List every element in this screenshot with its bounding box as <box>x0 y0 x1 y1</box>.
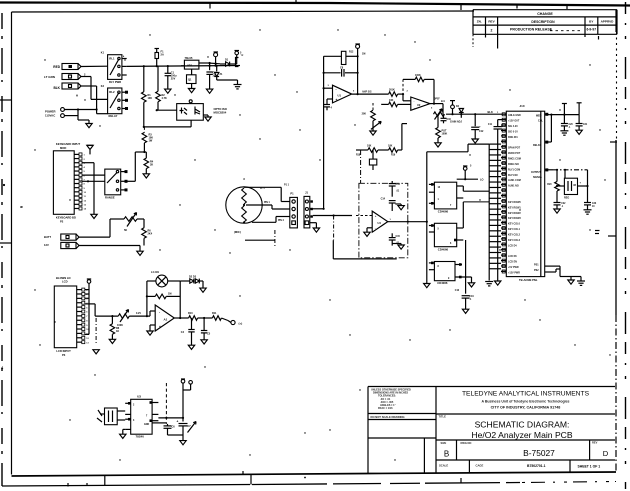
wire junction after R10 <box>198 317 213 319</box>
svg-text:MED: MED <box>536 115 542 118</box>
label R19b <box>391 155 396 157</box>
svg-text:U3: U3 <box>137 395 141 399</box>
resistor R2 4.7K <box>156 66 167 102</box>
resistor R17 pot 100K <box>436 128 448 143</box>
J1 ground <box>310 223 320 233</box>
shield dash line lcd <box>93 318 99 354</box>
svg-text:OUTPUT: OUTPUT <box>531 171 541 174</box>
svg-text:115VAC: 115VAC <box>45 114 55 118</box>
wire J10 second exit <box>545 115 552 144</box>
svg-text:CD4066: CD4066 <box>437 281 448 285</box>
left edge zone mark 4 <box>20 206 22 208</box>
feedback resistor R9 <box>155 293 171 299</box>
label C15 val <box>396 243 400 245</box>
IC U5 CD4066 <box>429 182 463 209</box>
wire bend to ladder <box>468 144 489 152</box>
IC U7 CD4066 <box>429 262 472 281</box>
svg-text:78S40: 78S40 <box>136 435 145 439</box>
revision entry rev number <box>491 28 493 32</box>
relay RL2 label <box>109 114 118 118</box>
connector J1 <box>304 191 310 228</box>
label 1M feedback <box>362 53 365 56</box>
earth ground right <box>234 80 242 89</box>
svg-text:PS1: PS1 <box>534 264 539 267</box>
op-amp U1 plus wire <box>327 99 333 105</box>
svg-text:DWG NO: DWG NO <box>461 441 472 445</box>
capacitor C6 <box>164 424 176 433</box>
sensor top wire <box>244 184 290 202</box>
svg-text:RLY1 COM: RLY1 COM <box>508 168 520 171</box>
transistor Q1 <box>187 69 197 88</box>
terminal T6 <box>577 103 582 115</box>
svg-text:10K: 10K <box>367 144 372 147</box>
capacitor C22 <box>554 203 567 210</box>
label K1 <box>101 52 105 55</box>
svg-text:U2: U2 <box>417 103 421 107</box>
relay RL1 <box>108 55 127 80</box>
power terminal circle 1 <box>61 108 97 112</box>
op-amp U2 <box>411 97 430 110</box>
svg-text:4.7K: 4.7K <box>162 97 167 100</box>
svg-text:J10: J10 <box>519 104 524 108</box>
wire U8 left <box>556 185 565 187</box>
svg-text:BLOWN LN: BLOWN LN <box>56 276 71 280</box>
svg-text:REV: REV <box>592 441 598 445</box>
resistor R14 feedback <box>402 74 434 104</box>
chassis line <box>245 216 334 248</box>
wire U6 right to ladder <box>463 202 489 228</box>
capacitor C21 <box>576 115 588 131</box>
capacitor C12 polarized <box>471 114 484 139</box>
svg-text:PRODUCTION RELEASE: PRODUCTION RELEASE <box>510 28 553 32</box>
voltage regulator VR1 78L05 <box>181 56 208 69</box>
trimmer arrow pot <box>371 122 381 130</box>
right outer scan edge (broken) <box>625 2 627 489</box>
svg-text:ALM1 COM: ALM1 COM <box>508 179 521 182</box>
main bus wire top <box>127 65 240 68</box>
title block outline <box>368 387 615 474</box>
switch S1 label <box>105 196 115 200</box>
svg-text:5K: 5K <box>124 229 127 232</box>
revision table column lines <box>486 17 598 49</box>
terminal plus output <box>231 320 242 325</box>
IC U3 78S40 <box>125 399 166 434</box>
rev label <box>592 441 598 445</box>
svg-text:RELAY: RELAY <box>109 114 118 118</box>
svg-text:BLK: BLK <box>53 86 60 90</box>
svg-text:LCD D4: LCD D4 <box>508 244 517 247</box>
label pin2 U2 <box>407 91 409 93</box>
svg-text:TITLE: TITLE <box>439 415 447 419</box>
svg-text:ZN.: ZN. <box>477 20 482 24</box>
capacitor C15 <box>389 233 401 245</box>
shield box dash-dot <box>359 183 408 257</box>
dwg no label <box>461 441 472 445</box>
svg-text:B: B <box>444 450 449 459</box>
svg-text:C15: C15 <box>396 235 401 238</box>
svg-text:TELEDYNE ANALYTICAL INSTRUMENT: TELEDYNE ANALYTICAL INSTRUMENTS <box>462 390 590 397</box>
svg-text:BATT: BATT <box>44 235 51 239</box>
IC U7 label <box>437 281 448 285</box>
svg-text:P2: P2 <box>60 219 64 223</box>
trimpot R16 <box>434 109 445 128</box>
terminal plug RED label <box>53 65 60 69</box>
ground below R4 <box>143 174 149 178</box>
op-amp U1 <box>333 85 352 103</box>
wire U5 right to ladder <box>463 186 489 191</box>
svg-text:C14: C14 <box>381 198 386 201</box>
capacitor C7 polarized <box>177 420 197 441</box>
op-amp U1 output <box>352 90 389 95</box>
svg-text:U1: U1 <box>338 94 342 98</box>
svg-text:DESCRIPTION: DESCRIPTION <box>531 20 555 24</box>
ground below power <box>86 120 92 128</box>
svg-text:RNG1 NO: RNG1 NO <box>508 163 519 166</box>
left edge zone mark 3 <box>1 365 4 370</box>
revision header REV <box>488 20 495 24</box>
svg-text:RNG ID1: RNG ID1 <box>508 136 518 139</box>
op-amp U2 output <box>430 101 475 114</box>
op-amp U1 minus wire <box>323 87 333 89</box>
svg-text:25V: 25V <box>171 78 176 81</box>
capacitor C10 <box>441 114 452 123</box>
svg-text:DO NOT SCALE DRAWING: DO NOT SCALE DRAWING <box>371 415 405 419</box>
svg-text:LCD D6: LCD D6 <box>508 255 517 258</box>
svg-text:R19: R19 <box>391 155 396 157</box>
zener D4 <box>456 105 464 118</box>
sheet label <box>578 464 601 468</box>
svg-text:CAL: CAL <box>538 120 543 123</box>
revision entry approval tick <box>598 36 600 40</box>
resistor R8 1K <box>110 316 120 339</box>
resistor R6 2K4 <box>137 219 153 246</box>
meter lamp M1 <box>156 275 168 287</box>
lcd bus rungs <box>85 290 89 335</box>
op-amp U4 minus ground <box>364 228 372 237</box>
resistor R3 10K 1W <box>142 127 153 152</box>
label pin6 U2 <box>431 108 433 110</box>
svg-text:R18: R18 <box>356 155 361 157</box>
svg-text:PIN 4: PIN 4 <box>278 219 284 222</box>
svg-text:SCHEMATIC DIAGRAM:: SCHEMATIC DIAGRAM: <box>475 419 570 429</box>
wire J1 to riser <box>310 208 325 210</box>
sensor element <box>242 188 247 224</box>
svg-text:KEY ROW2: KEY ROW2 <box>508 212 521 215</box>
svg-text:R12: R12 <box>349 51 354 54</box>
svg-text:SPAN POT: SPAN POT <box>508 147 521 150</box>
svg-text:12V: 12V <box>44 243 49 247</box>
drawing title line 1 <box>475 419 570 429</box>
op-amp A1 <box>155 305 174 331</box>
cage label <box>476 463 484 467</box>
svg-text:P1: P1 <box>290 192 294 196</box>
left outer scan edge (broken) <box>1 13 3 486</box>
sensor input riser <box>323 56 325 209</box>
svg-text:R11: R11 <box>212 312 217 315</box>
connector P2 pin texts <box>84 155 87 211</box>
bottom zone tick b <box>87 476 105 487</box>
svg-text:OP07: OP07 <box>434 97 441 100</box>
wire to op-amp A1 <box>129 311 155 317</box>
label pin6 U1 <box>353 91 355 93</box>
svg-text:LC-M1: LC-M1 <box>151 270 159 274</box>
ground below riser <box>424 284 430 288</box>
dash-dot wire to U8 <box>553 169 588 171</box>
ground below C2 <box>206 89 212 93</box>
ground bus2 <box>495 281 501 285</box>
zener pair D2 D3 <box>180 276 206 293</box>
size label <box>441 441 447 445</box>
label TP2b <box>241 55 244 57</box>
svg-text:FL 1: FL 1 <box>260 188 265 190</box>
J1 pin squares right <box>311 200 313 217</box>
svg-text:2: 2 <box>491 28 493 32</box>
connector J10 right texts <box>531 115 543 273</box>
earth ground below C23 <box>584 210 592 214</box>
bottom zone tick e <box>460 478 462 484</box>
resistor R20 <box>547 170 559 203</box>
svg-text:LCD: LCD <box>62 280 68 284</box>
svg-text:LCD EN: LCD EN <box>508 261 517 264</box>
label pin3 U1 <box>328 85 330 87</box>
svg-text:+: + <box>375 214 377 218</box>
svg-text:MOD: MOD <box>60 146 66 150</box>
svg-text:1K: 1K <box>116 330 119 333</box>
svg-text:C11: C11 <box>488 124 493 126</box>
bottom zone tick d <box>243 471 306 478</box>
inner border bottom <box>12 472 617 476</box>
connector J10 bottom label <box>519 278 538 282</box>
revision header APPROVED <box>601 20 615 24</box>
label C13 val <box>396 191 400 193</box>
bottom row cell lines <box>469 460 570 473</box>
svg-text:301K: 301K <box>389 88 395 91</box>
ground below C16 <box>462 309 468 313</box>
svg-text:ANLG GND: ANLG GND <box>508 114 521 117</box>
wire S1 up to R3 <box>128 151 147 181</box>
wire to output terminal <box>221 318 231 323</box>
IC U8 label <box>564 181 582 200</box>
wire X1 to U3 <box>117 411 125 420</box>
svg-text:KEY ROW0: KEY ROW0 <box>508 201 521 204</box>
terminal plug E4 <box>61 234 110 240</box>
wire P2 to switch a <box>82 174 105 176</box>
label U4 pin <box>390 219 392 221</box>
title block left col dividers <box>368 414 436 473</box>
company city <box>491 406 561 410</box>
company name <box>462 390 590 397</box>
label OP07 U2 <box>434 97 441 100</box>
svg-text:TB-ACME PNL: TB-ACME PNL <box>519 278 538 282</box>
fuse F1 <box>155 49 165 67</box>
svg-text:R10: R10 <box>188 312 193 315</box>
feedback C8 <box>323 67 359 77</box>
svg-text:+12V OUT: +12V OUT <box>508 120 520 123</box>
battery plug label <box>44 235 51 247</box>
svg-text:Q1: Q1 <box>188 78 192 82</box>
svg-text:KEY COL2: KEY COL2 <box>508 233 521 236</box>
ground right of C14 <box>398 204 404 210</box>
wire opto input <box>144 102 177 127</box>
wire J10 pin to T5 rail <box>545 113 579 116</box>
connector P2 keyboard <box>53 151 82 215</box>
svg-text:D2 D3: D2 D3 <box>189 276 197 279</box>
terminal plug BLK label <box>53 86 60 90</box>
svg-text:6-9-97: 6-9-97 <box>587 27 597 31</box>
svg-text:+: + <box>414 106 416 110</box>
wire C6 bottom join <box>168 433 184 435</box>
svg-text:0.2V: 0.2V <box>136 312 141 315</box>
wire E5 to ground <box>137 246 143 256</box>
capacitor C13 <box>389 181 401 197</box>
connector P1 <box>290 192 298 228</box>
wire into U2 minus <box>403 94 411 101</box>
ground below R8 <box>109 339 115 343</box>
svg-text:J1: J1 <box>305 191 308 195</box>
terminal T5 <box>562 104 567 115</box>
second ground right <box>577 281 585 285</box>
revision header DESCRIPTION <box>531 20 555 24</box>
svg-text:PIN 1: PIN 1 <box>264 202 270 204</box>
wire P2 pin3 down to ground <box>82 163 97 219</box>
svg-text:+: + <box>177 420 179 424</box>
sensor bottom wire <box>252 217 290 223</box>
terminal TP3 <box>450 101 455 116</box>
svg-text:C12: C12 <box>479 130 484 133</box>
terminal plug E1 (RED) <box>62 64 108 70</box>
left edge zone mark 2 <box>0 184 12 243</box>
wire R19 right riser <box>402 124 407 150</box>
svg-text:LCD INPUT: LCD INPUT <box>56 349 71 353</box>
terminal plug E2 (GRN) <box>62 73 91 80</box>
wire to diode D1 <box>208 63 220 65</box>
op-amp U4 <box>372 211 388 232</box>
svg-text:2K: 2K <box>150 164 153 167</box>
op-amp U4 output <box>388 221 427 223</box>
label C16b <box>455 290 460 292</box>
svg-text:C21: C21 <box>583 124 588 126</box>
keyboard input label <box>56 142 81 150</box>
svg-text:CAGE: CAGE <box>476 463 484 467</box>
wire TP4 LO <box>457 178 484 182</box>
ground U7 right <box>468 277 474 287</box>
terminal plug E3 (BLK) <box>62 83 97 89</box>
svg-text:RELAY: RELAY <box>533 144 541 147</box>
trimpot R7 100K <box>117 310 129 328</box>
svg-text:+5V PWR: +5V PWR <box>508 266 519 269</box>
relay RL1 label <box>109 80 121 84</box>
sensor label <box>234 230 241 234</box>
svg-text:KEY ROW3: KEY ROW3 <box>508 217 521 220</box>
ground below Q1 <box>188 89 194 93</box>
rev letter D <box>603 449 609 458</box>
J10 right side wires <box>545 266 575 284</box>
wire J1 to comparator <box>313 214 372 216</box>
sheet outer top edge (scan border) <box>0 3 630 6</box>
revision table title CHANGE <box>537 12 553 16</box>
mark H <box>76 94 78 98</box>
resistor R1 1K <box>142 66 153 102</box>
diode D1 <box>220 59 237 67</box>
file number <box>527 464 546 468</box>
shield bottom return <box>333 240 396 259</box>
opto bottom wire <box>143 120 191 128</box>
bottom zone tick c <box>250 474 252 485</box>
svg-text:R20: R20 <box>547 184 552 186</box>
do not scale drawing <box>371 415 405 419</box>
svg-text:(MIC): (MIC) <box>234 230 241 234</box>
title label <box>439 415 447 419</box>
svg-text:B7502701.1: B7502701.1 <box>527 464 546 468</box>
IC U8 reference <box>564 178 577 194</box>
ground below R17 <box>435 143 441 147</box>
wire D4 to connector <box>474 110 501 115</box>
svg-text:RLY PWR: RLY PWR <box>109 80 121 84</box>
terminal V+ a <box>181 379 185 422</box>
earth ground bus1 <box>485 282 493 286</box>
svg-text:RNG1 COM: RNG1 COM <box>508 158 521 161</box>
revision header ZN <box>477 20 482 24</box>
bottom outer scan edge <box>2 482 616 487</box>
opto right pin to ground <box>203 115 211 121</box>
svg-text:KEYBOARD INPUT: KEYBOARD INPUT <box>56 142 81 146</box>
inner border right <box>595 10 617 472</box>
keyboard bd label <box>56 215 76 223</box>
IC U3 label top <box>137 395 141 399</box>
ground below C4 <box>188 345 194 349</box>
ground below pot <box>370 131 376 135</box>
lcd display label <box>56 276 71 284</box>
power input label <box>45 110 56 118</box>
svg-text:FRAC ± 1/16: FRAC ± 1/16 <box>378 407 393 410</box>
capacitor C1 <box>165 66 177 89</box>
ladder rungs to J10 <box>489 144 501 269</box>
svg-text:P1 1: P1 1 <box>284 184 290 187</box>
ladder bus 1 <box>488 144 490 280</box>
svg-text:-: - <box>336 87 337 91</box>
ground below C5 <box>201 340 207 344</box>
svg-text:SIG 0-1V: SIG 0-1V <box>508 130 518 133</box>
label J10 pin1 <box>497 112 499 114</box>
resistor R15 <box>381 99 411 107</box>
dash-dot shield riser <box>360 150 362 183</box>
opto top pin <box>189 100 192 104</box>
capacitor C2 <box>206 62 217 89</box>
resistor R19 <box>378 144 402 152</box>
svg-text:AMP SIG: AMP SIG <box>362 90 372 93</box>
ground flag top <box>87 145 93 154</box>
component box below R18 <box>369 150 376 170</box>
svg-text:ZERO POT: ZERO POT <box>508 152 521 155</box>
ground U3 left pin <box>120 429 126 438</box>
bottom zone tick a <box>67 483 69 487</box>
revision table outline <box>473 10 617 47</box>
crystal network X1 <box>97 408 117 425</box>
size letter B <box>444 450 449 459</box>
title block row lines <box>436 414 615 460</box>
label sensor T <box>260 188 265 190</box>
svg-text:A Business Unit of Teledyne El: A Business Unit of Teledyne Electronic T… <box>481 399 569 403</box>
revision header BY <box>589 20 594 24</box>
svg-text:(+): (+) <box>239 322 243 326</box>
svg-text:RL1: RL1 <box>109 57 115 61</box>
terminal V+ b <box>183 381 192 391</box>
svg-text:C20: C20 <box>569 124 574 126</box>
svg-text:CHANGE: CHANGE <box>537 12 553 16</box>
bracket mark <box>236 58 239 67</box>
svg-text:+12V PWR: +12V PWR <box>508 271 520 274</box>
connector J10 label <box>519 104 524 108</box>
